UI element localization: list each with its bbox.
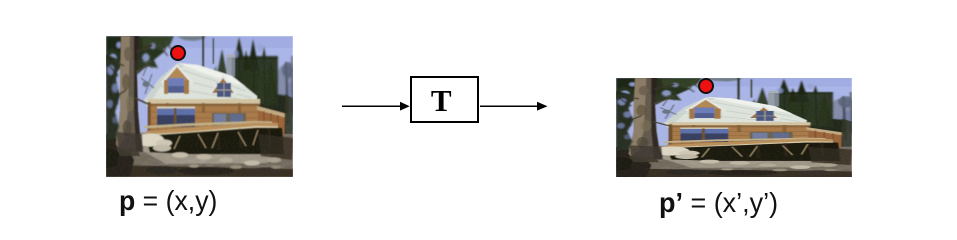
transform box T bbox=[410, 76, 479, 123]
label T bbox=[410, 76, 479, 123]
label p' = (x',y') bbox=[659, 187, 778, 219]
red dot left bbox=[170, 45, 186, 61]
arrow out of box bbox=[480, 105, 538, 107]
red dot right bbox=[698, 78, 714, 94]
label p = (x,y) bbox=[119, 185, 217, 217]
left photo bbox=[106, 36, 293, 177]
right photo (stretched) bbox=[616, 78, 852, 177]
arrow into box bbox=[330, 95, 560, 120]
scene definition (cabin photo drawn as SVG) bbox=[0, 0, 1, 1]
